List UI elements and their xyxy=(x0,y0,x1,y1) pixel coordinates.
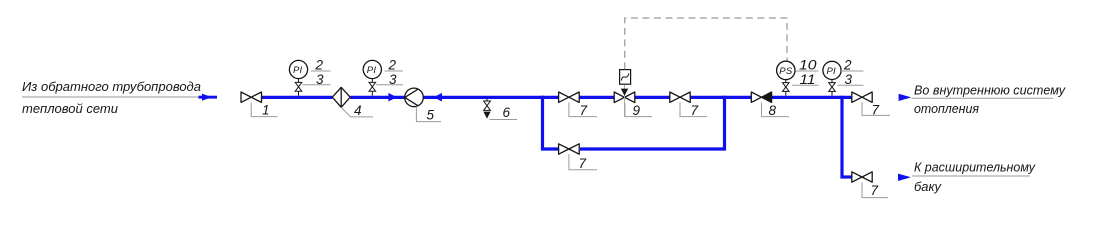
leader/label 8 xyxy=(762,102,790,117)
svg-text:6: 6 xyxy=(503,105,511,120)
svg-text:PI: PI xyxy=(367,65,377,76)
svg-text:7: 7 xyxy=(580,103,588,118)
valve 7d (bypass line) xyxy=(559,144,580,154)
label 2 xyxy=(841,70,864,72)
instrument PI (pos.2/3) middle xyxy=(363,58,403,96)
svg-text:3: 3 xyxy=(845,72,853,87)
svg-text:К расширительному: К расширительному xyxy=(914,160,1036,175)
wire: main pipe pump5 to valve7a xyxy=(423,96,558,99)
leader/label 7b xyxy=(680,102,707,117)
instrument PI (pos.2/3) right xyxy=(823,58,864,96)
svg-text:2: 2 xyxy=(315,58,324,73)
wire: bypass left vertical at junction xyxy=(541,96,544,151)
label 2 xyxy=(311,70,331,72)
label 3 xyxy=(376,84,403,86)
wire: bypass right vertical at junction xyxy=(723,96,726,151)
label 11 xyxy=(792,84,819,86)
svg-text:PS: PS xyxy=(779,66,793,77)
svg-text:баку: баку xyxy=(914,179,942,194)
wire: bypass bottom left segment xyxy=(541,147,559,150)
wire: main pipe valve9 to valve7b xyxy=(635,96,670,99)
svg-text:отопления: отопления xyxy=(914,101,979,116)
flow arrow (to expansion tank, pointing right) xyxy=(898,174,911,181)
svg-text:10: 10 xyxy=(799,58,817,73)
svg-text:7: 7 xyxy=(691,103,699,118)
flow arrow on pipe after pump (pointing left) xyxy=(434,93,442,102)
wire: branch to expansion tank horizontal xyxy=(841,175,852,178)
valve 1 (gate valve) xyxy=(241,92,262,102)
leader/label 6 xyxy=(490,105,518,120)
svg-text:11: 11 xyxy=(800,72,816,87)
leader/label 1 xyxy=(251,102,277,117)
label 3 xyxy=(303,84,331,86)
flow arrow (inlet, pointing right) xyxy=(199,94,218,101)
pump 5 (circle with triangle) xyxy=(405,88,424,107)
label 3 xyxy=(838,84,864,86)
wire: branch to expansion tank vertical xyxy=(840,96,843,179)
label 2 xyxy=(385,70,404,72)
svg-text:PI: PI xyxy=(827,66,837,77)
instrument PS (pos.10/11) xyxy=(777,58,819,96)
valve 7c (outlet to heating system) xyxy=(852,92,872,102)
svg-text:тепловой сети: тепловой сети xyxy=(22,101,118,116)
svg-text:Из обратного трубопровода: Из обратного трубопровода xyxy=(22,79,201,94)
instrument PI (pos.2/3) left xyxy=(289,58,330,96)
leader/label 7d xyxy=(569,154,597,171)
leader/label 7c xyxy=(862,102,890,117)
svg-text:Во внутреннюю систему: Во внутреннюю систему xyxy=(914,83,1066,98)
wire: bypass bottom right segment xyxy=(580,147,726,150)
flow arrow on pipe before pump (pointing right) xyxy=(388,93,396,102)
wire: main pipe valve7a to valve9 xyxy=(579,96,614,99)
leader/label 4 xyxy=(341,103,373,118)
node: outlet text "Во внутреннюю систему отопления" xyxy=(912,83,1067,117)
instrument isolation valve xyxy=(369,82,376,86)
check valve 8 xyxy=(751,92,771,102)
instrument isolation valve xyxy=(295,82,302,86)
svg-text:2: 2 xyxy=(843,58,852,73)
valve 7b (main line) xyxy=(670,92,690,102)
wire: main pipe valve1 to filter4 xyxy=(262,96,333,99)
control valve 9 with actuator xyxy=(614,70,635,117)
svg-text:3: 3 xyxy=(389,72,397,87)
filter 4 (diamond with vertical line) xyxy=(332,87,350,107)
wire: main pipe valve7b to check valve 8 xyxy=(690,96,751,99)
svg-text:1: 1 xyxy=(262,102,270,117)
svg-text:PI: PI xyxy=(293,65,303,76)
wire: main pipe check valve 8 to valve7c xyxy=(772,96,852,99)
svg-text:2: 2 xyxy=(388,58,397,73)
svg-text:5: 5 xyxy=(427,108,435,123)
node: outlet text "К расширительному баку" xyxy=(912,160,1036,194)
svg-text:7: 7 xyxy=(579,156,587,171)
leader/label 9 xyxy=(625,103,652,118)
instrument isolation valve xyxy=(829,83,836,87)
leader/label 5 xyxy=(416,106,441,122)
instrument isolation valve xyxy=(783,83,790,87)
actuator stem triangle xyxy=(624,84,626,116)
leader/label 7e xyxy=(862,182,888,198)
svg-text:4: 4 xyxy=(354,103,362,118)
svg-text:3: 3 xyxy=(316,72,324,87)
valve 7e (to expansion tank) xyxy=(852,172,872,182)
svg-text:9: 9 xyxy=(633,103,641,118)
label 10 xyxy=(796,70,819,72)
svg-text:7: 7 xyxy=(872,103,880,118)
dashed control signal line from actuator to PS xyxy=(625,18,787,69)
leader/label 7a xyxy=(569,102,597,117)
valve 7a (main line) xyxy=(559,92,580,102)
svg-text:7: 7 xyxy=(871,183,879,198)
svg-text:8: 8 xyxy=(769,103,777,118)
wire: main pipe filter4 to pump5 xyxy=(350,96,404,99)
actuator box xyxy=(620,70,631,85)
drain valve 6 xyxy=(483,99,490,119)
node: inlet text "Из обратного трубопровода тепловой сети" xyxy=(22,79,207,116)
flow arrow (outlet to heating system, pointing right) xyxy=(899,94,912,101)
